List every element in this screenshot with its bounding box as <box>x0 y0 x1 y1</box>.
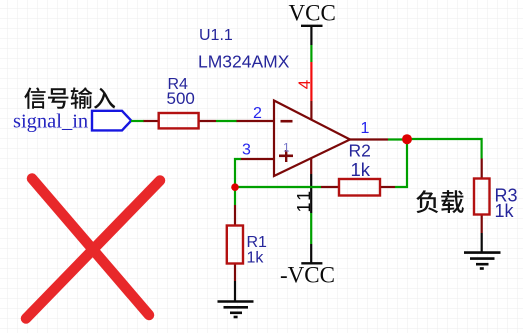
wire port to R4 <box>131 120 144 122</box>
ground (R1) <box>218 281 254 317</box>
value 1k (R3) <box>495 201 515 221</box>
svg-text:3: 3 <box>242 142 251 159</box>
svg-text:11: 11 <box>294 188 314 213</box>
svg-text:4: 4 <box>295 80 314 89</box>
resistor R1 <box>227 205 243 281</box>
svg-text:LM324AMX: LM324AMX <box>198 51 290 71</box>
svg-text:-VCC: -VCC <box>280 263 335 288</box>
pin 4 <box>295 62 314 120</box>
svg-text:2: 2 <box>253 105 262 122</box>
svg-text:R1: R1 <box>247 234 268 251</box>
svg-text:1k: 1k <box>351 159 371 180</box>
wire pin 11 to -VCC <box>310 213 312 244</box>
value 500 <box>167 89 195 108</box>
value 1k (R1) <box>247 250 265 267</box>
wire pin3 corner <box>235 159 241 187</box>
label R1 <box>247 234 268 251</box>
svg-text:1k: 1k <box>247 250 265 267</box>
resistor R3 <box>474 159 490 234</box>
pin 2 <box>237 105 275 122</box>
resistor R4 <box>144 113 217 128</box>
junction node A <box>231 183 239 191</box>
svg-text:1k: 1k <box>495 201 515 221</box>
pin 3 <box>241 142 275 160</box>
wire R4 to pin2 <box>216 120 237 122</box>
junction node B <box>402 134 412 144</box>
wire feedback horizontal <box>235 186 321 188</box>
power port -VCC <box>280 244 335 288</box>
pin 1 <box>350 120 388 140</box>
comment LM324AMX <box>198 51 290 71</box>
svg-text:VCC: VCC <box>289 1 336 26</box>
wire R2 right to output <box>395 139 407 187</box>
svg-text:R2: R2 <box>349 141 371 161</box>
wire to load <box>407 139 482 159</box>
svg-text:1: 1 <box>283 141 290 155</box>
resistor R2 <box>321 179 395 196</box>
label R3 <box>495 186 518 206</box>
svg-text:U1.1: U1.1 <box>199 27 233 44</box>
wire output <box>388 138 407 140</box>
op-amp U1.1 <box>274 101 350 177</box>
value 1k (R2) <box>351 159 371 180</box>
pin 11 <box>294 158 314 214</box>
label R4 <box>168 76 189 93</box>
svg-text:500: 500 <box>167 89 195 108</box>
power port VCC <box>289 1 336 46</box>
port signal_in <box>92 111 131 131</box>
ground (R3) <box>464 233 501 269</box>
svg-text:1: 1 <box>361 120 370 137</box>
net label signal_in <box>13 111 88 133</box>
wire junction to R1 <box>234 187 236 205</box>
label R2 <box>349 141 371 161</box>
annotation red X <box>26 179 160 319</box>
label 负载 <box>416 190 464 213</box>
label 信号输入 <box>24 87 115 109</box>
wire VCC to pin 4 <box>310 45 312 62</box>
designator U1.1 <box>199 27 233 44</box>
svg-text:signal_in: signal_in <box>13 111 88 133</box>
